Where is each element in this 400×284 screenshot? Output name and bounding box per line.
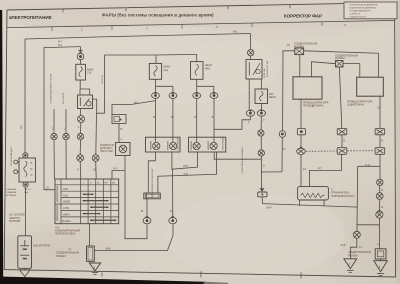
svg-text:HEAD: HEAD xyxy=(269,95,276,99)
svg-text:ПЕРЕКЛЮЧАТЕЛЬ: ПЕРЕКЛЮЧАТЕЛЬ xyxy=(55,233,76,236)
svg-text:W-L: W-L xyxy=(233,30,238,34)
svg-text:*5 ДАЛЕЕ 10/2017г: *5 ДАЛЕЕ 10/2017г xyxy=(349,16,367,19)
svg-text:W-L: W-L xyxy=(58,43,63,47)
svg-text:КОРОБКА ПРЕДОХР.: КОРОБКА ПРЕДОХР. xyxy=(10,146,13,166)
svg-text:КОРРЕКТОР ФАР: КОРРЕКТОР ФАР xyxy=(284,13,322,18)
svg-text:НАПРЯЖЕНИЯ КОРР.: НАПРЯЖЕНИЯ КОРР. xyxy=(331,195,355,198)
svg-text:С ГАЛОГЕННЫМИ ФАРАМИ: С ГАЛОГЕННЫМИ ФАРАМИ xyxy=(241,147,244,174)
svg-text:2.0Л *1: 2.0Л *1 xyxy=(24,189,32,191)
svg-text:HEAD: HEAD xyxy=(63,200,70,204)
svg-text:ПЛАВКАЯ: ПЛАВКАЯ xyxy=(6,191,17,194)
svg-text:1: 1 xyxy=(379,265,381,269)
svg-text:LOW: LOW xyxy=(63,206,69,210)
svg-text:*2 ДИЗЕЛЬНЫЙ ДВИГАТЕЛЬ: *2 ДИЗЕЛЬНЫЙ ДВИГАТЕЛЬ xyxy=(349,7,377,10)
svg-text:B-W: B-W xyxy=(267,205,272,209)
svg-text:С КОММУТАЦИОННОГО БЛОКА: С КОММУТАЦИОННОГО БЛОКА xyxy=(50,73,53,104)
svg-text:*3 СЕДАН ДВИГАТЕЛЯ: *3 СЕДАН ДВИГАТЕЛЯ xyxy=(349,10,371,13)
svg-text:АККУМУЛЯТОР: АККУМУЛЯТОР xyxy=(33,244,50,247)
svg-text:ЗАДНЕЙ ФАРЫ: ЗАДНЕЙ ФАРЫ xyxy=(347,104,364,107)
svg-text:R-Y: R-Y xyxy=(114,167,119,171)
svg-text:ЭЛЕКТРОПИТАНИЕ: ЭЛЕКТРОПИТАНИЕ xyxy=(9,15,52,20)
svg-text:30A: 30A xyxy=(24,191,28,194)
svg-text:HEAD: HEAD xyxy=(163,64,170,68)
svg-text:W-L: W-L xyxy=(134,100,139,104)
svg-text:ГЛАВНАЯ: ГЛАВНАЯ xyxy=(6,188,16,191)
svg-text:РАЗЪЕМ: РАЗЪЕМ xyxy=(56,255,66,258)
svg-text:ПЕРЕДНЕЙ ФАРЫ: ПЕРЕДНЕЙ ФАРЫ xyxy=(303,104,323,107)
svg-text:1H: 1H xyxy=(170,115,173,119)
svg-text:B-Y: B-Y xyxy=(58,40,62,44)
svg-text:2.0L: 2.0L xyxy=(87,71,92,75)
svg-text:ПЕРЕКЛЮЧАТЕЛЬ СВЕТА ФАР: ПЕРЕКЛЮЧАТЕЛЬ СВЕТА ФАР xyxy=(151,168,154,198)
svg-text:*1 БЕНЗИНОВЫЙ ДВИГАТЕЛЬ: *1 БЕНЗИНОВЫЙ ДВИГАТЕЛЬ xyxy=(349,4,378,7)
svg-text:РАЗЪЕМ: РАЗЪЕМ xyxy=(294,46,304,49)
svg-text:БЛОК №2: БЛОК №2 xyxy=(101,74,104,84)
svg-text:ФАРА ЛЕВАЯ: ФАРА ЛЕВАЯ xyxy=(177,137,180,150)
svg-text:W-B: W-B xyxy=(183,164,188,168)
svg-text:FLASH: FLASH xyxy=(62,219,70,223)
svg-text:HEAD: HEAD xyxy=(205,63,212,67)
svg-text:W-B: W-B xyxy=(106,246,111,250)
svg-text:HU: HU xyxy=(112,183,116,185)
svg-text:РАЗЪЕМ: РАЗЪЕМ xyxy=(348,254,358,257)
svg-text:ФАРА ПРАВАЯ: ФАРА ПРАВАЯ xyxy=(221,136,224,150)
svg-text:W-B: W-B xyxy=(341,243,346,247)
svg-text:РАЗЪЕМ: РАЗЪЕМ xyxy=(335,57,345,60)
svg-text:СВЕТА ФАР: СВЕТА ФАР xyxy=(100,150,114,153)
svg-text:*1-B: *1-B xyxy=(183,172,188,176)
svg-text:*1-D: *1-D xyxy=(365,163,370,167)
svg-text:ПИТАНИЯ: ПИТАНИЯ xyxy=(9,220,21,223)
svg-text:ФАРЫ (без системы освещения в: ФАРЫ (без системы освещения в дневное вр… xyxy=(102,12,214,17)
svg-text:(RH): (RH) xyxy=(205,66,210,70)
svg-text:РЕЛЕ ФАР: РЕЛЕ ФАР xyxy=(263,67,266,78)
svg-text:OFF: OFF xyxy=(63,187,69,191)
svg-text:1F: 1F xyxy=(153,115,156,119)
svg-text:(LH): (LH) xyxy=(163,68,168,72)
svg-text:1: 1 xyxy=(93,265,95,269)
svg-text:TAIL: TAIL xyxy=(63,193,69,197)
svg-text:HIGH: HIGH xyxy=(63,213,70,217)
svg-text:ВСТАВКА: ВСТАВКА xyxy=(6,194,16,197)
svg-text:*4 4GR-FTV: *4 4GR-FTV xyxy=(349,14,361,16)
svg-text:15A: 15A xyxy=(269,92,274,96)
svg-text:W-B: W-B xyxy=(21,124,23,129)
svg-text:КОРРЕКТОР ФАР: КОРРЕКТОР ФАР xyxy=(266,60,269,77)
svg-text:1: 1 xyxy=(348,263,350,267)
svg-text:БЛОК РЕЛЕ: БЛОК РЕЛЕ xyxy=(63,92,65,104)
